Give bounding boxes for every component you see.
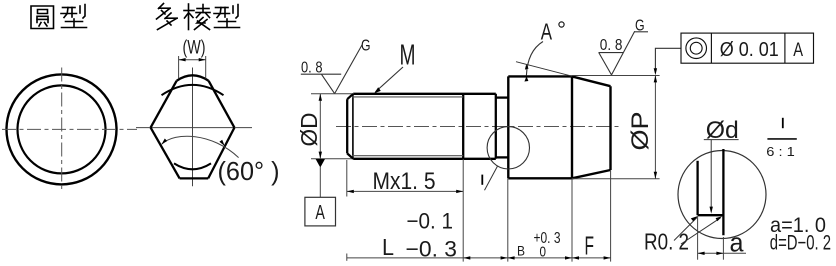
- svg-text:Mx1. 5: Mx1. 5: [373, 168, 436, 195]
- svg-text:(W): (W): [183, 38, 206, 59]
- svg-text:F: F: [585, 230, 595, 260]
- phi-D bottom arrowhead: [319, 152, 322, 159]
- svg-text:(60° ): (60° ): [218, 156, 280, 186]
- phi-D extension lines: [311, 94, 352, 159]
- detail shoulder: [698, 214, 724, 216]
- taper extension line: [516, 62, 572, 76]
- svg-text:−0. 1: −0. 1: [407, 208, 454, 233]
- label round-type char 型: [61, 5, 87, 28]
- phi-d leader arrowhead: [710, 207, 713, 214]
- detail label I bar: [782, 118, 784, 128]
- svg-text:A: A: [541, 19, 553, 45]
- svg-text:ØD: ØD: [296, 113, 322, 147]
- bottom dimension chain line: [347, 257, 611, 259]
- phi-P dimension line: [654, 75, 656, 178]
- round view inner circle: [18, 85, 106, 173]
- phi-P arrowheads: [654, 75, 657, 82]
- label round-type (CJK 圆型): [31, 6, 54, 29]
- R0.2 arrowheads: [691, 216, 698, 221]
- svg-text:0. 8: 0. 8: [600, 37, 623, 54]
- thread chamfer edge line: [352, 95, 354, 159]
- svg-text:+0. 3: +0. 3: [534, 230, 561, 247]
- thread minor diameter lines: [352, 97, 463, 156]
- lobe view vertical centerline: [192, 68, 194, 187]
- svg-text:a: a: [730, 228, 745, 258]
- head outline: [508, 76, 610, 178]
- svg-text:ØP: ØP: [627, 112, 654, 151]
- round view vertical centerline: [61, 68, 63, 193]
- svg-text:M: M: [400, 40, 416, 72]
- label multi-lobe-type char 多: [157, 4, 178, 30]
- phi-P bottom extension line: [572, 178, 660, 180]
- label multi-lobe-type char 棱: [184, 4, 210, 30]
- detail view circle: [678, 151, 766, 239]
- 60 degree arc dimension: [162, 136, 239, 157]
- phi-P top extension line: [572, 75, 660, 77]
- chain arrowheads: [463, 256, 610, 259]
- label multi-lobe-type char 型: [214, 5, 240, 28]
- datum A box: [305, 197, 336, 226]
- M leader arrowhead: [374, 87, 381, 93]
- svg-text:0. 8: 0. 8: [301, 59, 323, 76]
- surface finish symbol 0.8 left: [301, 45, 362, 94]
- svg-text:d=D−0. 2: d=D−0. 2: [770, 231, 831, 254]
- detail indicator circle I: [487, 127, 529, 169]
- angle A arc arrowheads: [524, 76, 528, 81]
- detail left wall: [696, 161, 698, 215]
- round view horizontal centerline: [2, 128, 137, 130]
- svg-text:G: G: [635, 18, 645, 35]
- R0.2 leader 2: [681, 218, 721, 244]
- svg-text:Ø 0. 01: Ø 0. 01: [720, 39, 779, 61]
- tolerance frame: [681, 33, 814, 63]
- phi-d leader: [710, 140, 712, 212]
- dimension a: [698, 217, 746, 260]
- M leader line: [376, 67, 404, 92]
- surface finish symbol 0.8 right: [599, 31, 649, 75]
- svg-text:0: 0: [540, 244, 547, 261]
- W arrowheads: [179, 58, 206, 61]
- Mx1.5 dimension: [347, 160, 463, 197]
- dimension a arrowheads: [698, 252, 705, 255]
- degree mark of A: [559, 22, 564, 27]
- round view outer circle: [7, 74, 117, 184]
- svg-text:6 : 1: 6 : 1: [766, 144, 795, 159]
- Mx1.5 arrowheads: [347, 190, 354, 193]
- datum A triangle: [316, 159, 325, 168]
- tolerance frame leader: [655, 48, 681, 72]
- angle A arc: [526, 42, 543, 76]
- lobe view profile: [151, 75, 235, 178]
- phi-d underline: [704, 139, 739, 141]
- lobe view horizontal centerline: [136, 127, 252, 129]
- svg-text:G: G: [361, 38, 371, 55]
- svg-text:L: L: [382, 234, 394, 260]
- datum A stem: [319, 167, 321, 197]
- svg-text:A: A: [793, 40, 803, 61]
- R0.2 leader 1: [674, 218, 697, 241]
- svg-text:B: B: [517, 243, 525, 259]
- detail right wall: [722, 149, 724, 235]
- lobe view upper chamfer arc: [162, 85, 224, 95]
- main view centerline: [336, 126, 622, 128]
- svg-text:A: A: [315, 202, 325, 224]
- phi-D top arrowhead: [319, 94, 322, 101]
- lobe view lower chamfer arc: [174, 163, 211, 169]
- thread outline: [347, 94, 508, 159]
- label I leader: [485, 166, 498, 190]
- W dimension line: [179, 56, 206, 79]
- 60 degree arc arrowheads: [161, 139, 167, 145]
- chain extension lines: [346, 254, 348, 261]
